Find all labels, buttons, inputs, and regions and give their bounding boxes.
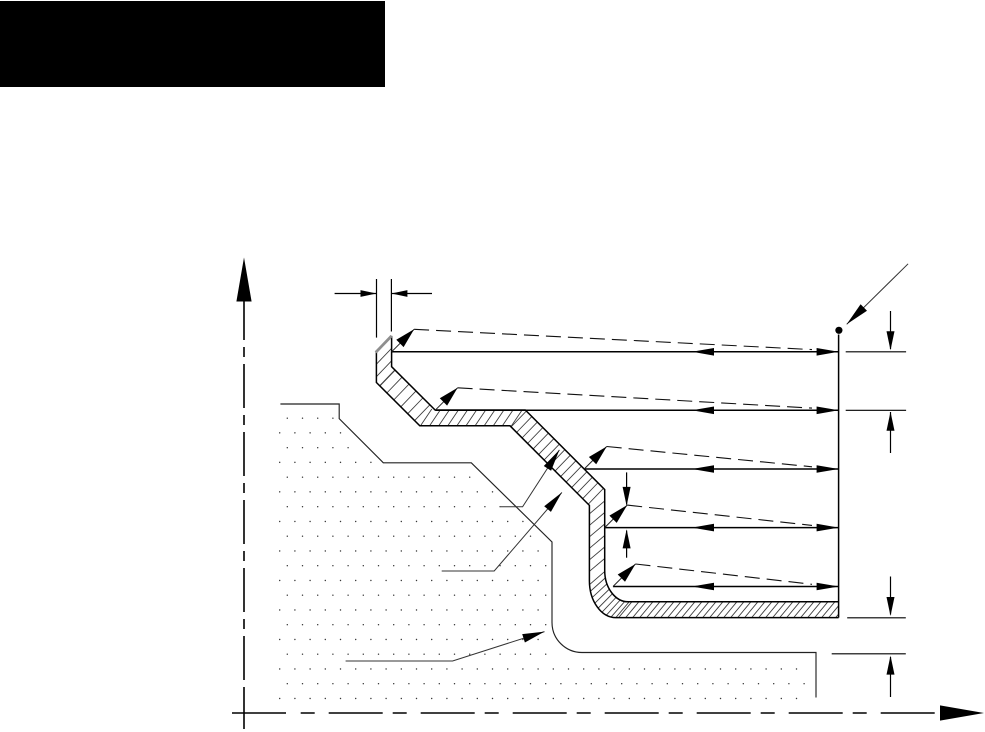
extension line at blank bottom (832, 653, 906, 655)
extension line at band bottom (847, 617, 906, 619)
leader D to start point (847, 264, 908, 325)
pass 5 feed-direction arrow (left) (692, 583, 714, 591)
pass 1 45-degree escape (392, 329, 415, 352)
cutting pass 3 feed line (584, 468, 838, 470)
mid dim arrow up (escape amount) (626, 531, 628, 558)
extension line left (376, 279, 378, 338)
leader C to blank fillet (346, 632, 545, 661)
cutting pass 1 feed line (392, 351, 839, 353)
dimension arrow pointing left (391, 293, 432, 295)
pass 3 return arrow (right) (817, 465, 839, 473)
cutting pass 2 feed line (435, 409, 838, 411)
pass 4 rapid return (dashed) (627, 505, 812, 525)
extension line at pass 1 level (846, 351, 906, 353)
pass 1 return arrow (right) (817, 348, 839, 356)
pass 2 feed-direction arrow (left) (692, 407, 714, 415)
stipple dots of blank material (280, 418, 804, 698)
mid dim arrow down (escape amount) (626, 472, 628, 504)
allowance band inner edge (finished profile) (392, 336, 839, 602)
pass 4 return arrow (right) (817, 524, 839, 532)
leader A to program path (501, 450, 560, 507)
pass 5 rapid return (dashed) (636, 564, 813, 584)
Z axis (horizontal centerline with arrow) (232, 705, 984, 720)
cutting pass 5 feed line (613, 586, 839, 588)
dim arrow down to pass1 line (890, 311, 892, 349)
pass 2 45-degree escape (435, 388, 458, 411)
allowance band hatch (373, 345, 857, 619)
extension line right (390, 279, 392, 332)
extension line at pass 2 level (846, 409, 906, 411)
pass 2 return arrow (right) (817, 407, 839, 415)
X axis (vertical centerline with arrow) (236, 258, 251, 730)
leader B to allowance band (442, 492, 562, 571)
pass 5 return arrow (right) (817, 583, 839, 591)
pass 5 45-degree escape (613, 564, 636, 587)
dim arrow down to band bottom (890, 577, 892, 615)
start point dot (835, 327, 842, 334)
allowance band outer edge (376, 352, 838, 618)
pass 2 rapid return (dashed) (458, 388, 812, 408)
pass 3 rapid return (dashed) (607, 447, 812, 467)
workpiece blank outline (280, 404, 816, 698)
pass 1 feed-direction arrow (left) (692, 348, 714, 356)
right vertical line at cycle start X (838, 335, 840, 618)
dimension arrow pointing right (335, 293, 377, 295)
pass 3 feed-direction arrow (left) (692, 465, 714, 473)
pass 3 45-degree escape (584, 447, 607, 470)
chamfer at band top (376, 336, 392, 353)
cutting pass 4 feed line (605, 527, 839, 529)
black redaction block (0, 1, 385, 87)
dim arrow up to blank bottom line (890, 657, 892, 697)
dim arrow up to pass2 line (890, 412, 892, 453)
pass 1 rapid return (dashed) (414, 329, 812, 349)
pass 4 45-degree escape (605, 505, 628, 527)
pass 4 feed-direction arrow (left) (692, 524, 714, 532)
